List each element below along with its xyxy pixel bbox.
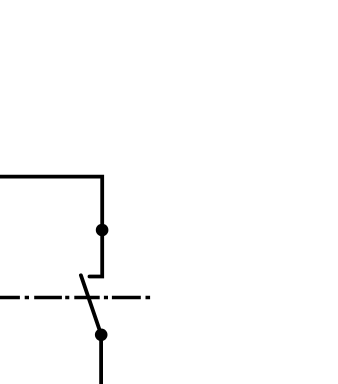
junction dot: switch pivot node [95,329,108,342]
wire: top feed, horizontal from left edge then down to switch fixed contact hook [0,177,102,277]
junction dot: node on upper vertical wire [96,224,109,237]
switch SW1 blade (moving contact) [81,275,101,335]
wire: bottom lead down to edge [99,335,103,384]
centerline (dash-dot mechanical linkage line) [0,296,150,300]
